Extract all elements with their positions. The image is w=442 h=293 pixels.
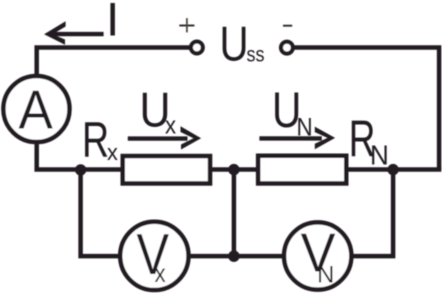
wire: RN right through right dot to right edge: [345, 167, 441, 172]
wire: between Rx and RN: [208, 167, 260, 172]
node: left junction dot: [75, 164, 86, 175]
wire: from - terminal across top and down right side: [294, 47, 439, 169]
svg-text:R: R: [82, 113, 109, 168]
wire: middle vertical between middle dots: [232, 170, 237, 257]
svg-text:x: x: [155, 260, 166, 289]
svg-text:A: A: [19, 80, 54, 141]
svg-text:x: x: [165, 112, 176, 139]
wire: top horizontal to + terminal, corner down to ammeter top: [37, 47, 190, 76]
svg-text:ss: ss: [247, 43, 265, 67]
wire: bottom dot to VN: [232, 254, 289, 259]
svg-text:I: I: [106, 0, 119, 46]
label: + sign: [179, 18, 194, 32]
ammeter A circle: [3, 76, 69, 142]
current arrow I: [44, 21, 104, 45]
terminal: - pole of source Uss: [281, 42, 293, 54]
resistor RN body: [258, 156, 346, 184]
node: right junction dot: [387, 164, 398, 175]
voltage arrow Ux: [128, 126, 201, 149]
svg-text:N: N: [370, 140, 389, 171]
node: bottom middle junction dot: [228, 250, 240, 262]
voltmeter VN circle: [284, 222, 351, 289]
svg-text:N: N: [297, 114, 313, 141]
svg-text:U: U: [220, 15, 249, 71]
svg-text:x: x: [107, 140, 118, 165]
wire: left dot down, corner right to Vx: [81, 170, 123, 257]
wire: ammeter bottom down, corner right to Rx: [37, 142, 124, 170]
node: middle junction dot: [228, 164, 239, 175]
terminal: + pole of source Uss: [191, 42, 203, 54]
wire: right dot down, corner left to VN: [349, 170, 393, 257]
label: - sign: [283, 25, 292, 27]
voltmeter Vx circle: [120, 222, 188, 290]
resistor Rx body: [123, 156, 210, 183]
voltage arrow UN: [259, 127, 335, 150]
svg-text:N: N: [317, 261, 334, 288]
wire: Vx right to bottom middle dot: [185, 254, 236, 259]
